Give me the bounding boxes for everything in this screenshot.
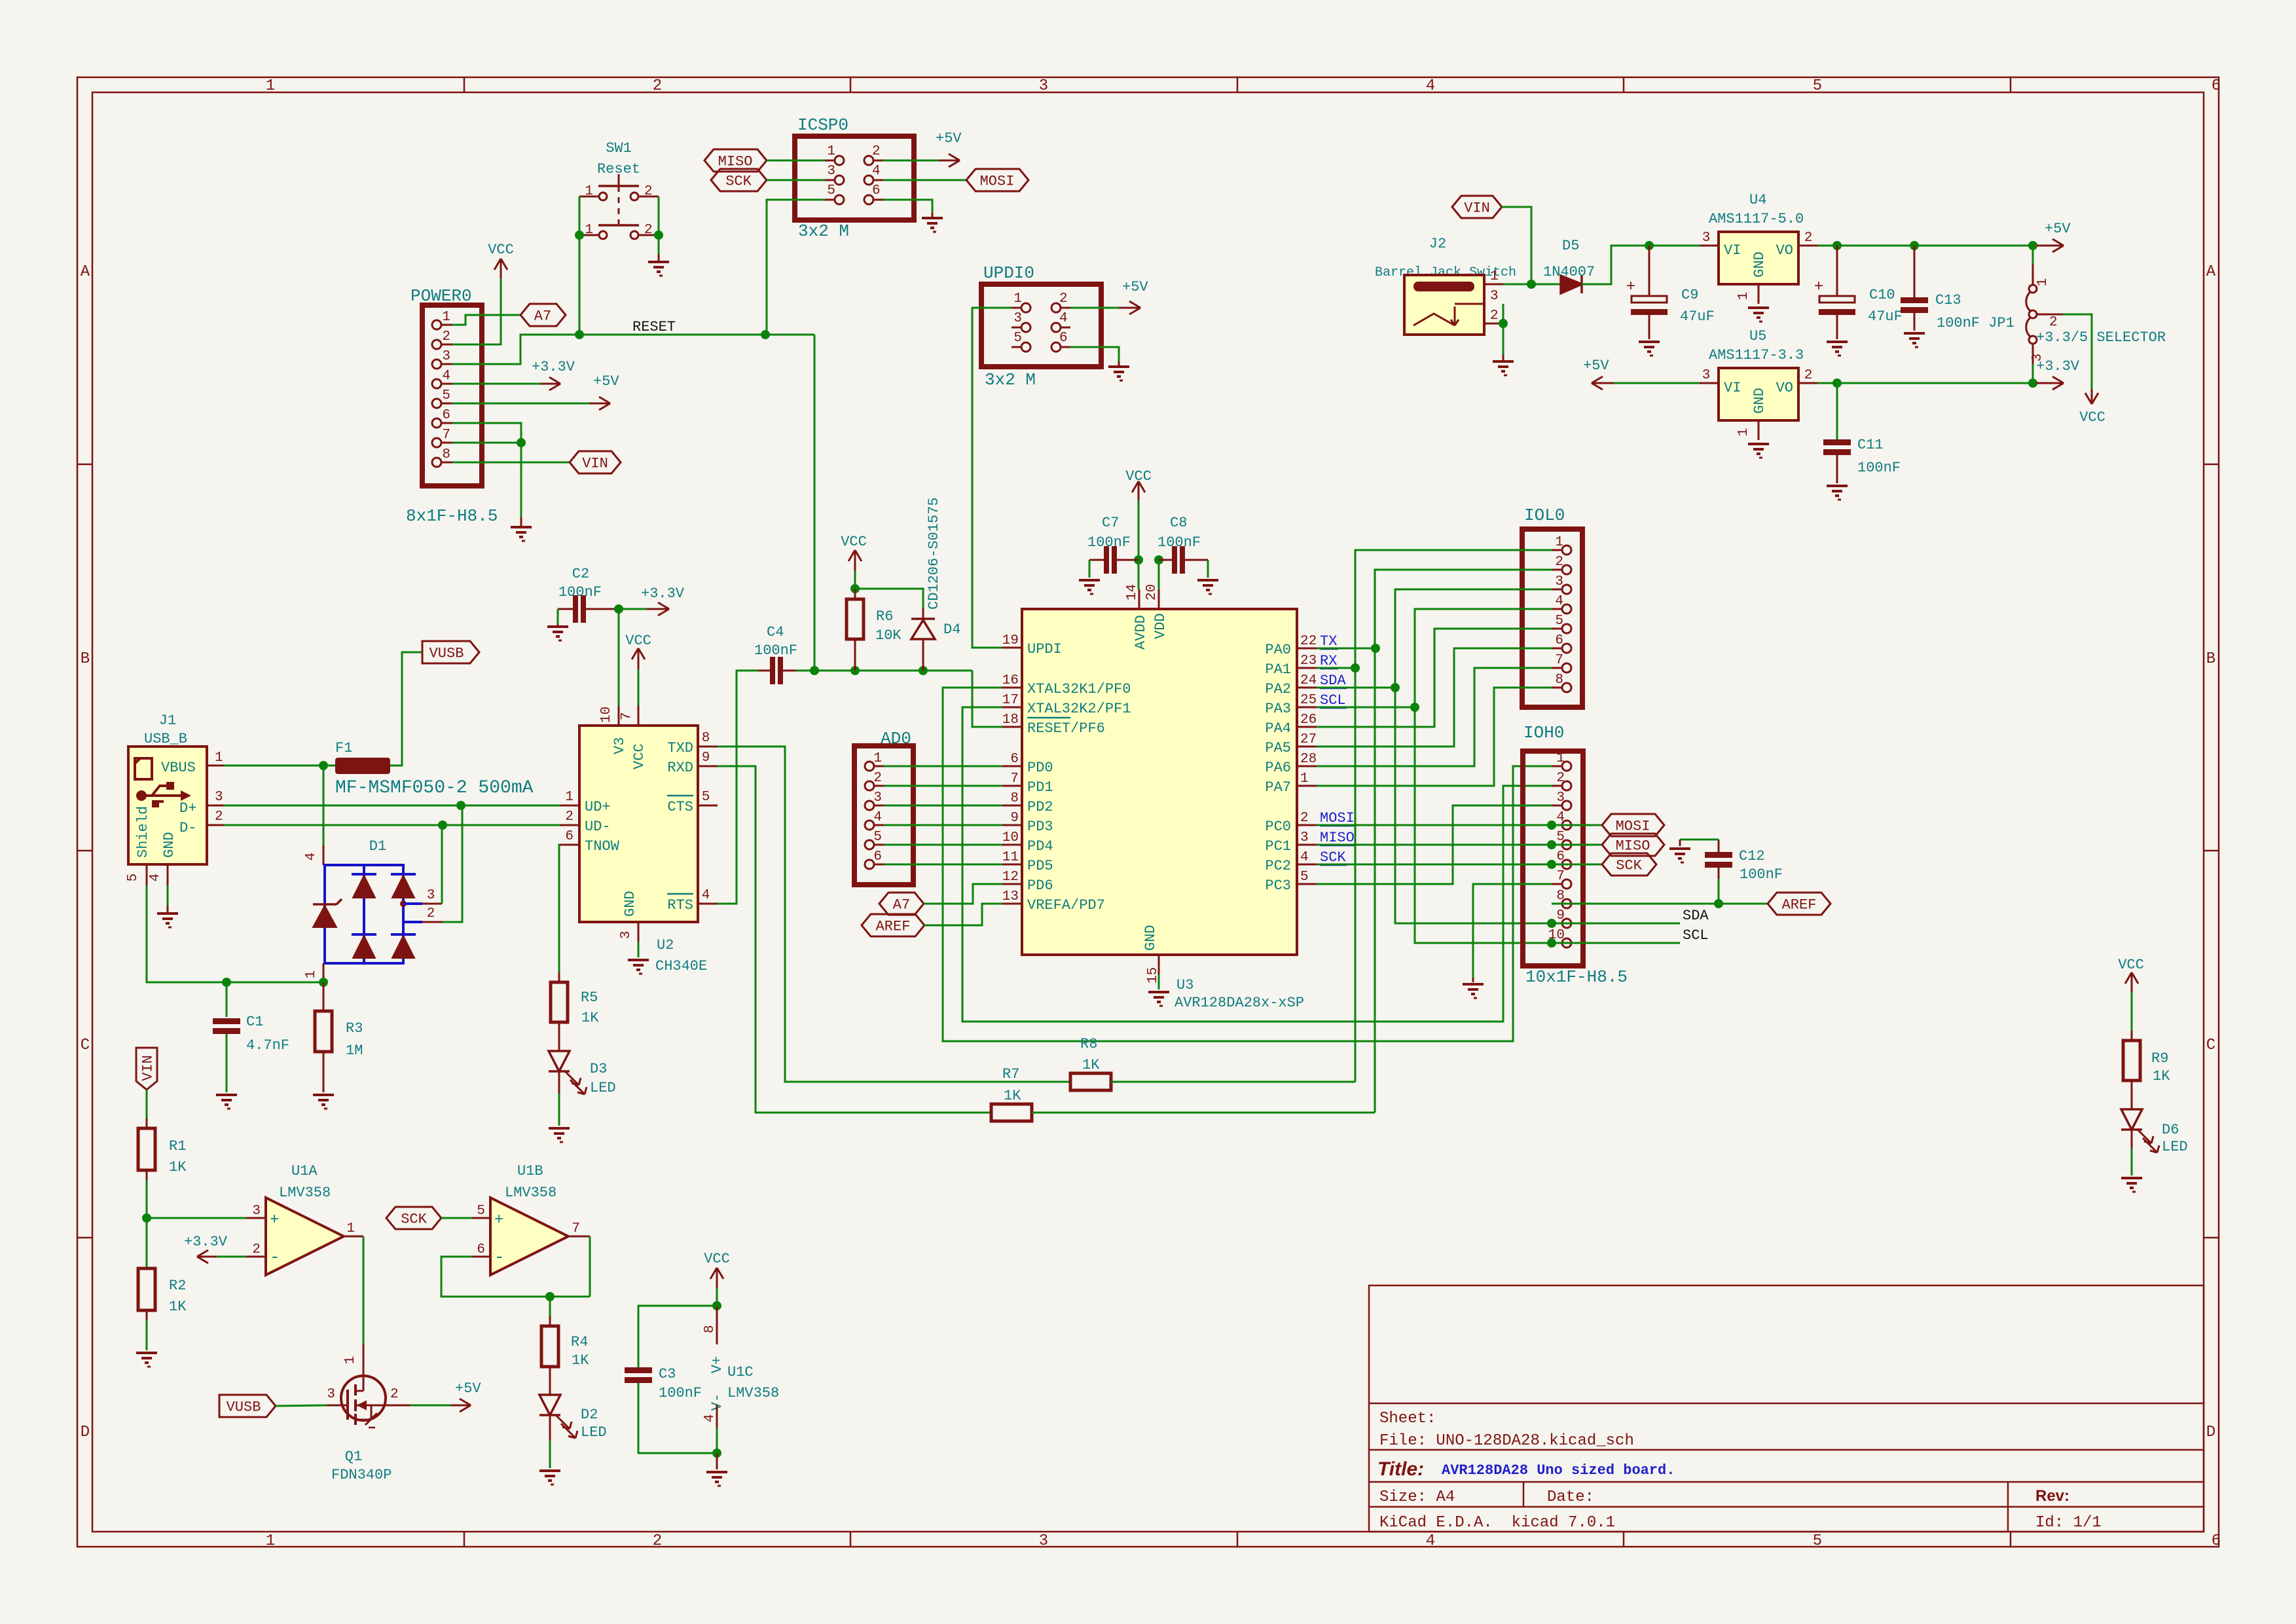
svg-text:U4: U4: [1749, 192, 1766, 208]
svg-text:3: 3: [327, 1387, 335, 1402]
svg-text:5: 5: [702, 790, 710, 805]
wire IOL0 pin3 / SDA vertical: [1395, 589, 1552, 923]
wire IOL0 pin1 / RX / R8 vertical: [1355, 550, 1552, 1082]
global label A7: [520, 304, 566, 326]
svg-text:5: 5: [1813, 1532, 1822, 1550]
svg-text:7: 7: [572, 1221, 580, 1236]
svg-text:1K: 1K: [169, 1299, 187, 1315]
svg-text:VIN: VIN: [1464, 200, 1490, 216]
svg-text:10: 10: [1002, 830, 1019, 845]
svg-text:11: 11: [1002, 850, 1019, 865]
svg-text:6: 6: [1010, 752, 1019, 767]
svg-text:LED: LED: [581, 1424, 607, 1441]
pin Q1 2: [386, 1405, 410, 1407]
svg-text:100nF: 100nF: [1157, 534, 1201, 551]
wire D- from J1 to U2: [224, 824, 560, 826]
pin U2 RTS (4): [698, 903, 718, 905]
svg-text:5: 5: [1813, 77, 1822, 95]
junction R1/R2: [142, 1213, 151, 1223]
svg-text:U1A: U1A: [291, 1163, 318, 1179]
svg-text:VDD: VDD: [1152, 613, 1169, 639]
svg-text:8x1F-H8.5: 8x1F-H8.5: [406, 506, 498, 526]
svg-text:U1C: U1C: [727, 1364, 754, 1380]
capacitor C11 100nF: [1836, 383, 1838, 439]
svg-text:13: 13: [1002, 889, 1019, 904]
svg-text:Shield: Shield: [135, 806, 151, 858]
svg-text:VCC: VCC: [625, 633, 651, 649]
wire RTS to C4: [718, 671, 758, 904]
junction TX: [1371, 644, 1380, 653]
svg-text:1: 1: [266, 77, 275, 95]
svg-text:XTAL32K2/PF1: XTAL32K2/PF1: [1027, 701, 1131, 717]
svg-text:D6: D6: [2162, 1122, 2179, 1138]
global label VIN at POWER0: [570, 451, 621, 473]
wire U3 pin17 XTAL32K2 route: [962, 707, 1552, 1022]
svg-text:B: B: [81, 650, 90, 668]
wire VIN to J2 pin1 rail: [1502, 207, 1531, 284]
wire D1 pin1 junction: [323, 980, 325, 982]
wire IOH0 pin7 to ground: [1473, 884, 1552, 978]
svg-text:VI: VI: [1724, 380, 1741, 396]
svg-text:12: 12: [1002, 870, 1019, 885]
power VCC at POWER0: [500, 259, 502, 278]
svg-text:U2: U2: [657, 937, 674, 953]
svg-text:1: 1: [304, 970, 319, 979]
wire D5 cathode to +5V rail: [1582, 246, 1649, 284]
junction D1/R3/C1: [319, 978, 328, 987]
junction SCL: [1410, 703, 1419, 712]
power VCC at U1C: [716, 1268, 718, 1288]
junction R6 bottom: [850, 666, 860, 675]
svg-text:6: 6: [2212, 77, 2221, 95]
svg-text:A7: A7: [893, 896, 910, 913]
svg-text:PA5: PA5: [1265, 740, 1291, 756]
junction RESET at SW1: [575, 330, 584, 339]
pin U3-27 PA5: [1297, 746, 1317, 748]
ground C12: [1679, 840, 1681, 846]
svg-text:SCK: SCK: [725, 173, 752, 189]
svg-text:4: 4: [873, 810, 882, 825]
svg-text:19: 19: [1002, 633, 1019, 648]
svg-text:1: 1: [215, 750, 223, 766]
wire PC1 MISO line: [1317, 844, 1602, 846]
svg-text:+3.3V: +3.3V: [184, 1234, 228, 1250]
wire POWER0 pin2 to VCC: [452, 278, 501, 344]
ground IOH0: [1472, 978, 1474, 982]
pin U3-17 XTAL32K2/PF1: [1002, 707, 1022, 709]
svg-text:3: 3: [1490, 289, 1499, 304]
svg-text:C1: C1: [246, 1014, 263, 1030]
pin U2 UD+ (1): [560, 805, 579, 807]
svg-text:16: 16: [1002, 673, 1019, 688]
svg-text:8: 8: [1556, 889, 1565, 904]
svg-text:MF-MSMF050-2 500mA: MF-MSMF050-2 500mA: [335, 778, 534, 798]
pin U3-3 PC1: [1297, 844, 1317, 846]
svg-text:PD6: PD6: [1027, 877, 1053, 894]
wire JP1 pin3 to +3.3V rail: [2032, 343, 2034, 364]
wire SW1 left to RESET: [579, 235, 581, 335]
diode D4 CD1206-S01575: [922, 608, 924, 619]
svg-text:D3: D3: [590, 1061, 607, 1077]
svg-text:C3: C3: [659, 1366, 676, 1382]
wire R8 to RX vertical: [1111, 1081, 1355, 1083]
svg-text:1: 1: [1013, 291, 1022, 306]
pin U3-2 PC0: [1297, 824, 1317, 826]
svg-text:PD0: PD0: [1027, 760, 1053, 776]
pin U3-14 AVDD: [1139, 589, 1140, 609]
svg-text:C12: C12: [1739, 848, 1765, 864]
power VCC above U3: [1138, 481, 1140, 500]
wire D+ from J1 to U2: [224, 805, 560, 807]
svg-text:PD3: PD3: [1027, 819, 1053, 835]
wire SCL line: [1317, 707, 1415, 709]
svg-text:RX: RX: [1320, 653, 1337, 669]
svg-text:+5V: +5V: [455, 1380, 481, 1397]
wire VIN to R1: [146, 1090, 148, 1118]
global label MOSI at ICSP0: [966, 169, 1029, 191]
power VCC at U2: [638, 648, 640, 669]
svg-text:3: 3: [1555, 574, 1563, 589]
svg-text:MISO: MISO: [718, 153, 753, 170]
pin U2 RXD (9): [698, 766, 718, 767]
global label A7 at AD0: [879, 893, 924, 915]
junction IOH0 pin6: [1547, 860, 1556, 869]
junction C13: [1910, 241, 1919, 250]
pin U2 GND (3): [638, 922, 640, 942]
svg-text:100nF: 100nF: [754, 642, 797, 659]
svg-text:18: 18: [1002, 712, 1019, 728]
wire to U2 V3: [618, 609, 620, 706]
wire ICSP0 pin5 to RESET: [767, 200, 825, 335]
op-amp power U1C LMV358: [716, 1306, 718, 1344]
global label VUSB at F1: [422, 641, 479, 663]
svg-text:2: 2: [390, 1387, 399, 1402]
svg-text:VIN: VIN: [139, 1055, 156, 1081]
svg-text:3: 3: [873, 790, 882, 805]
svg-text:+: +: [1626, 278, 1635, 296]
svg-text:GND: GND: [1142, 925, 1159, 951]
global label MISO at IOH0: [1602, 834, 1664, 856]
ground R2: [136, 1352, 157, 1354]
svg-text:5: 5: [827, 183, 835, 198]
ground U2: [628, 959, 649, 961]
ground D3: [549, 1127, 570, 1130]
pin U3-6 PD0: [1002, 766, 1022, 767]
wire SW1 left rail: [579, 196, 581, 235]
svg-text:IOL0: IOL0: [1524, 506, 1565, 525]
svg-text:+3.3V: +3.3V: [532, 359, 575, 375]
svg-text:CD1206-S01575: CD1206-S01575: [926, 497, 942, 610]
pin U1A 2 -: [246, 1256, 266, 1258]
svg-text:AVR128DA28x-xSP: AVR128DA28x-xSP: [1175, 995, 1304, 1011]
svg-text:R3: R3: [346, 1020, 363, 1037]
svg-text:Rev:: Rev:: [2035, 1487, 2069, 1505]
junction C12/AREF: [1714, 899, 1723, 908]
ground C7: [1079, 579, 1100, 581]
wire SW1 right rail: [658, 196, 660, 235]
svg-text:Sheet:: Sheet:: [1379, 1410, 1436, 1428]
svg-text:AMS1117-3.3: AMS1117-3.3: [1709, 347, 1804, 363]
svg-text:PD4: PD4: [1027, 838, 1053, 855]
svg-text:A: A: [2206, 263, 2216, 281]
svg-text:SDA: SDA: [1320, 673, 1346, 689]
wire D1 pin2 to D+ net: [443, 805, 462, 922]
svg-text:9: 9: [702, 750, 710, 766]
svg-text:7: 7: [1555, 653, 1563, 668]
junction R6 top: [850, 584, 860, 593]
svg-text:1: 1: [585, 184, 593, 199]
svg-text:3: 3: [1013, 311, 1022, 326]
power +5V at ICSP0: [939, 160, 960, 162]
svg-text:1: 1: [565, 790, 574, 805]
svg-text:47uF: 47uF: [1680, 308, 1715, 325]
svg-text:AREF: AREF: [876, 918, 911, 934]
junction POWER0 gnd: [517, 438, 526, 447]
svg-text:4: 4: [702, 888, 710, 903]
svg-text:SCK: SCK: [1320, 849, 1346, 866]
mcu U3 AVR128DA28x-xSP: [1022, 609, 1297, 955]
wire F1 to VUSB: [390, 652, 422, 766]
svg-text:3: 3: [252, 1204, 261, 1219]
svg-text:VO: VO: [1776, 242, 1793, 259]
svg-text:10: 10: [599, 707, 614, 723]
svg-text:2: 2: [565, 809, 574, 824]
svg-text:5: 5: [477, 1204, 485, 1219]
global label SCK at ICSP0: [711, 169, 767, 191]
svg-text:2: 2: [1490, 308, 1499, 323]
svg-text:VCC: VCC: [1125, 468, 1152, 485]
svg-text:1K: 1K: [581, 1010, 599, 1026]
junction RX: [1351, 663, 1360, 673]
ground POWER0: [520, 443, 522, 525]
pin U2 TXD (8): [698, 746, 718, 748]
svg-text:UPDI: UPDI: [1027, 641, 1062, 657]
svg-text:Id: 1/1: Id: 1/1: [2035, 1514, 2102, 1532]
svg-text:1: 1: [1300, 771, 1309, 786]
pin D1-2: [403, 921, 422, 923]
wire VUSB to Q1: [276, 1405, 327, 1406]
svg-text:XTAL32K1/PF0: XTAL32K1/PF0: [1027, 681, 1131, 697]
svg-text:SCL: SCL: [1683, 927, 1709, 944]
svg-text:SDA: SDA: [1683, 908, 1709, 924]
wire A7 to U3 pin12: [924, 884, 1002, 904]
svg-text:GND: GND: [1751, 388, 1768, 414]
svg-text:6: 6: [2212, 1532, 2221, 1550]
pin J2-2: [1484, 323, 1503, 325]
svg-text:+5V: +5V: [593, 373, 619, 390]
wire POWER0 pin7: [452, 442, 521, 444]
svg-text:100nF: 100nF: [558, 584, 602, 600]
pin D1-1: [323, 963, 325, 980]
power +3.3V at C2: [647, 608, 669, 610]
junction +3.3V rail: [2028, 378, 2037, 388]
svg-text:9: 9: [1010, 811, 1019, 826]
svg-text:SCK: SCK: [1616, 857, 1642, 874]
svg-text:-: -: [494, 1247, 505, 1267]
resistor R6 10K: [854, 589, 856, 599]
pin U3-23 PA1: [1297, 667, 1317, 669]
svg-text:7: 7: [1556, 869, 1565, 884]
svg-text:IOH0: IOH0: [1523, 723, 1564, 743]
wire MISO to ICSP0 pin1: [767, 160, 825, 162]
svg-text:4: 4: [702, 1414, 718, 1422]
svg-text:2: 2: [1556, 771, 1565, 786]
svg-text:PA0: PA0: [1265, 642, 1291, 658]
svg-text:1: 1: [2035, 278, 2050, 287]
wire VBUS to F1: [224, 765, 335, 767]
svg-text:1: 1: [1736, 428, 1751, 437]
svg-text:AMS1117-5.0: AMS1117-5.0: [1709, 211, 1804, 227]
svg-text:47uF: 47uF: [1868, 308, 1903, 325]
svg-text:AVR128DA28 Uno sized board.: AVR128DA28 Uno sized board.: [1442, 1462, 1675, 1479]
svg-text:CH340E: CH340E: [655, 958, 707, 974]
svg-text:RESET: RESET: [632, 319, 676, 335]
svg-text:U3: U3: [1176, 977, 1194, 993]
junction U1C V-: [712, 1449, 721, 1458]
svg-text:5: 5: [873, 830, 882, 845]
svg-text:SW1: SW1: [606, 140, 632, 157]
svg-text:25: 25: [1300, 693, 1317, 708]
global label VIN bottom left: [136, 1048, 157, 1090]
svg-text:2: 2: [644, 184, 653, 199]
power VCC at R9: [2131, 972, 2133, 992]
ground U1C: [716, 1453, 718, 1469]
svg-text:2: 2: [1555, 555, 1563, 570]
svg-text:3x2 M: 3x2 M: [798, 221, 849, 241]
capacitor C13 100nF: [1901, 297, 1928, 303]
svg-text:6: 6: [1556, 849, 1565, 864]
svg-text:PC1: PC1: [1265, 838, 1291, 855]
junction SW1 left: [575, 231, 584, 240]
svg-text:1K: 1K: [169, 1159, 187, 1175]
wire AREF line from IOH0 pin8: [1552, 903, 1768, 905]
svg-text:VIN: VIN: [582, 455, 608, 471]
capacitor C3 100nF: [638, 1306, 717, 1367]
wire junction to U1A+: [147, 1217, 246, 1219]
svg-text:MOSI: MOSI: [1320, 810, 1355, 826]
pin U2 UD- (2): [560, 824, 579, 826]
wire RX line: [1317, 667, 1355, 669]
wire U4 VO to +5V selector rail: [1817, 245, 2033, 247]
wire J1 shield down-right: [147, 885, 227, 982]
ground C2: [557, 624, 559, 627]
svg-text:D: D: [2206, 1424, 2215, 1441]
resistor R2 1K: [146, 1218, 148, 1268]
wire RESET down to PF6 line: [814, 335, 816, 671]
wire U3 pin16 XTAL32K1 route: [943, 688, 1552, 1041]
svg-text:VUSB: VUSB: [429, 645, 464, 661]
svg-text:LMV358: LMV358: [505, 1185, 556, 1201]
svg-text:3: 3: [215, 790, 223, 805]
svg-text:9: 9: [1556, 908, 1565, 923]
svg-text:Date:: Date:: [1547, 1488, 1594, 1506]
ground C9: [1639, 341, 1660, 343]
svg-text:D1: D1: [369, 838, 386, 855]
junction U1B/R4: [545, 1292, 555, 1301]
svg-text:1: 1: [343, 1356, 358, 1365]
svg-text:+: +: [494, 1211, 503, 1229]
svg-text:5: 5: [442, 388, 450, 403]
svg-text:D-: D-: [179, 820, 196, 836]
resistor R9 1K: [2131, 1031, 2133, 1041]
svg-text:-: -: [270, 1247, 280, 1267]
svg-text:FDN340P: FDN340P: [331, 1467, 392, 1483]
svg-text:20: 20: [1144, 584, 1159, 600]
pin U1A 3 +: [246, 1217, 266, 1219]
pin U3-9 PD3: [1002, 824, 1022, 826]
svg-text:V3: V3: [611, 737, 628, 754]
svg-text:3: 3: [1702, 231, 1711, 246]
wire PF6 into U3 pin18: [972, 671, 1002, 727]
pin U3-10 PD4: [1002, 844, 1022, 846]
ground D2: [539, 1469, 560, 1472]
pin U3-11 PD5: [1002, 864, 1022, 866]
svg-text:Title:: Title:: [1377, 1458, 1424, 1480]
power VCC at R6: [854, 550, 856, 571]
svg-text:1K: 1K: [2153, 1068, 2170, 1084]
svg-text:2: 2: [442, 329, 450, 344]
wire ICSP0 pin4 to MOSI: [883, 179, 966, 181]
svg-text:VCC: VCC: [488, 242, 514, 258]
svg-text:+: +: [270, 1211, 279, 1229]
svg-text:3: 3: [1556, 790, 1565, 805]
global label SCK at IOH0: [1602, 853, 1656, 876]
junction IOH0 pin9: [1547, 919, 1556, 928]
diode D6 LED: [2131, 1080, 2133, 1109]
wire Q1 to +5V: [410, 1405, 451, 1407]
svg-text:3: 3: [619, 931, 634, 939]
pin U1B 6 -: [472, 1256, 490, 1258]
svg-text:100nF: 100nF: [1087, 534, 1131, 551]
svg-text:24: 24: [1300, 673, 1317, 688]
junction ICSP pin5 on RESET: [761, 330, 770, 339]
svg-text:3x2 M: 3x2 M: [985, 370, 1036, 390]
wire POWER0 pin3 to RESET net: [452, 335, 579, 364]
svg-text:V+: V+: [709, 1356, 725, 1373]
svg-text:C9: C9: [1681, 287, 1698, 303]
svg-text:1: 1: [442, 310, 450, 325]
svg-text:2: 2: [252, 1242, 261, 1257]
svg-text:R6: R6: [876, 608, 893, 625]
svg-text:2: 2: [1059, 291, 1068, 306]
svg-text:PA1: PA1: [1265, 661, 1291, 678]
wire IOH0 pin10 SCL stub: [1552, 942, 1680, 944]
svg-text:TXD: TXD: [667, 740, 693, 756]
wire J2 pin1 to D5: [1503, 284, 1561, 286]
svg-text:7: 7: [442, 428, 450, 443]
svg-text:GND: GND: [161, 832, 177, 858]
junction SDA: [1391, 683, 1400, 692]
svg-text:VCC: VCC: [841, 534, 867, 550]
svg-text:5: 5: [1556, 830, 1565, 845]
svg-text:TNOW: TNOW: [585, 838, 620, 855]
svg-text:C10: C10: [1869, 287, 1895, 303]
ground D6: [2121, 1177, 2142, 1179]
junction JP1 top: [2028, 241, 2037, 250]
svg-text:KiCad E.D.A. kicad 7.0.1: KiCad E.D.A. kicad 7.0.1: [1379, 1514, 1615, 1532]
svg-text:U5: U5: [1749, 328, 1766, 344]
svg-text:J2: J2: [1429, 236, 1446, 252]
svg-text:3: 3: [427, 888, 435, 903]
wire U1A out to Q1 gate: [363, 1236, 365, 1344]
svg-text:R2: R2: [169, 1278, 186, 1294]
diode D3 LED: [558, 1022, 560, 1051]
svg-text:1: 1: [266, 1532, 275, 1550]
wire D1 pin3 to D- net: [441, 825, 443, 904]
svg-text:TX: TX: [1320, 633, 1337, 650]
svg-text:6: 6: [565, 829, 574, 844]
svg-text:4: 4: [148, 874, 163, 882]
